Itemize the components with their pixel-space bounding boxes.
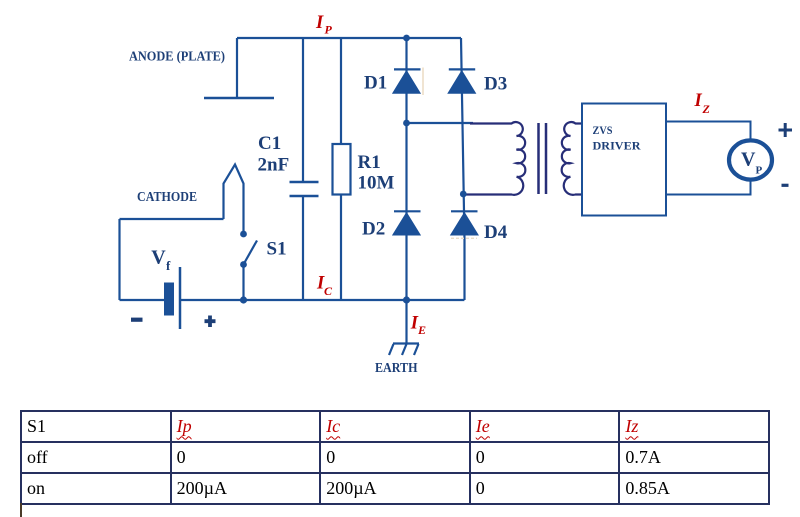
diode D1 (393, 69, 421, 93)
svg-text:C1: C1 (258, 133, 281, 154)
wire meter to ZVS bottom (666, 181, 751, 195)
ZVS driver box U1 (582, 104, 666, 216)
wire earth lead (405, 300, 407, 343)
node dot top of D1 (403, 35, 410, 42)
svg-text:Z: Z (702, 102, 711, 116)
battery Vf negative plate (164, 283, 174, 316)
svg-text:V: V (741, 148, 756, 170)
table of measurements (20, 410, 770, 505)
diode D4 (451, 211, 478, 235)
transformer core (539, 123, 547, 194)
wire R1 top lead (340, 38, 342, 144)
battery Vf positive plate (179, 267, 182, 329)
node dot switch bottom (240, 261, 247, 268)
svg-text:P: P (325, 23, 333, 37)
wire cathode left vertical (118, 219, 120, 300)
wire D1-D2 branch (405, 38, 407, 300)
wire C1 bottom lead (302, 197, 304, 300)
meter minus sign (782, 184, 789, 187)
svg-text:EARTH: EARTH (375, 360, 418, 375)
battery minus sign (131, 318, 143, 322)
cathode electrode hook (224, 165, 244, 234)
wire bottom bus left (120, 299, 165, 301)
node dot earth junction (403, 296, 410, 303)
svg-text:f: f (166, 258, 171, 273)
diode D2 (393, 211, 421, 235)
wire switch to bottom bus (242, 265, 244, 301)
wire bottom bus right (180, 299, 464, 301)
meter plus sign (779, 123, 793, 137)
anode plate electrode (204, 97, 274, 100)
svg-text:CATHODE: CATHODE (137, 189, 197, 204)
stray border tick below table (20, 503, 22, 517)
svg-text:P: P (756, 164, 763, 176)
transformer secondary winding (562, 122, 582, 195)
svg-text:I: I (315, 13, 324, 33)
capacitor C1 (290, 182, 319, 196)
wire C1 top lead (302, 38, 304, 181)
wire junction to transformer (407, 122, 474, 124)
anode plate lead wire (236, 38, 238, 97)
transformer T1 primary winding (466, 122, 582, 195)
svg-text:ANODE (PLATE): ANODE (PLATE) (129, 49, 225, 64)
node dot D3-D4 junction (460, 191, 467, 198)
svg-text:2nF: 2nF (258, 155, 290, 176)
svg-text:DRIVER: DRIVER (593, 139, 641, 153)
artifact underline D4 (451, 237, 477, 239)
wire top bus (237, 37, 461, 39)
svg-text:E: E (417, 323, 426, 337)
meter Vp circle (729, 140, 772, 179)
diode D3 (448, 69, 475, 93)
resistor R1 (333, 144, 351, 195)
svg-text:10M: 10M (358, 173, 395, 194)
artifact highlight line (422, 68, 424, 96)
battery plus sign (205, 316, 216, 328)
wire R1 bottom lead (340, 195, 342, 301)
svg-text:D2: D2 (362, 219, 385, 240)
svg-text:C: C (324, 284, 333, 298)
switch S1 blade (244, 241, 257, 264)
wire cathode horizontal (120, 218, 224, 220)
node dot bottom bus at switch (240, 296, 247, 303)
svg-text:D3: D3 (484, 74, 507, 95)
svg-text:D4: D4 (484, 222, 508, 243)
svg-text:V: V (151, 247, 166, 269)
wire ZVS to meter top (666, 122, 751, 140)
node dot D1-D2 junction (403, 120, 410, 127)
svg-text:ZVS: ZVS (593, 123, 613, 137)
svg-text:S1: S1 (267, 239, 287, 260)
svg-text:R1: R1 (358, 152, 381, 173)
ground earth symbol (389, 344, 419, 356)
wire D3-D4 branch (461, 38, 465, 300)
svg-text:D1: D1 (364, 73, 387, 94)
node dot switch top (240, 231, 247, 238)
svg-text:I: I (694, 91, 703, 111)
